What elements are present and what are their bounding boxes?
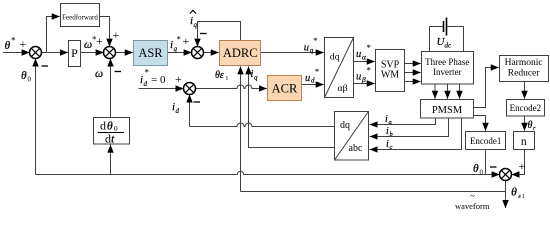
svg-text:+: +: [183, 34, 190, 48]
svg-text:0: 0: [480, 169, 484, 177]
svg-text:d: d: [176, 107, 180, 115]
svg-text:Inverter: Inverter: [433, 67, 461, 77]
svg-text:*: *: [367, 43, 372, 53]
svg-text:dc: dc: [445, 42, 453, 50]
svg-text:0: 0: [28, 76, 32, 84]
svg-text:*: *: [315, 67, 320, 77]
svg-text:dt: dt: [105, 132, 115, 146]
svg-text:θ: θ: [5, 40, 11, 52]
svg-text:+: +: [519, 159, 526, 173]
svg-text:+: +: [20, 37, 27, 51]
svg-text:θ: θ: [528, 120, 533, 131]
svg-text:PMSM: PMSM: [432, 105, 463, 116]
svg-text:+: +: [96, 34, 103, 48]
svg-text:n: n: [521, 136, 527, 148]
svg-text:*: *: [145, 68, 150, 78]
svg-text:θ: θ: [511, 185, 517, 199]
svg-text:Feedforward: Feedforward: [62, 14, 98, 22]
svg-text:P: P: [71, 46, 78, 60]
svg-text:q: q: [194, 21, 198, 29]
svg-text:*: *: [11, 36, 16, 46]
svg-text:a: a: [389, 119, 392, 126]
svg-text:ω: ω: [95, 68, 103, 80]
svg-text:Harmonic: Harmonic: [505, 58, 543, 68]
svg-text:waveform: waveform: [455, 201, 490, 211]
svg-text:d: d: [311, 77, 315, 85]
svg-text:c: c: [390, 144, 393, 151]
svg-text:ADRC: ADRC: [223, 46, 258, 60]
svg-text:θ: θ: [21, 70, 27, 82]
svg-text:Encode1: Encode1: [470, 136, 502, 146]
svg-text:Reducer: Reducer: [508, 69, 540, 79]
svg-text:θ: θ: [473, 163, 479, 175]
svg-text:+: +: [175, 72, 182, 86]
svg-text:*: *: [367, 66, 372, 76]
svg-text:~: ~: [470, 191, 475, 201]
svg-text:ASR: ASR: [138, 46, 163, 60]
svg-text:Encode2: Encode2: [510, 103, 542, 113]
svg-text:*: *: [92, 35, 97, 45]
svg-text:u: u: [356, 72, 361, 83]
svg-text:u: u: [305, 73, 310, 84]
svg-text:+: +: [113, 28, 120, 42]
svg-text:Three Phase: Three Phase: [425, 57, 469, 67]
svg-text:ACR: ACR: [272, 82, 298, 96]
svg-text:u: u: [356, 49, 361, 60]
svg-text:u: u: [304, 43, 309, 54]
svg-text:αβ: αβ: [338, 83, 348, 94]
svg-text:= 0: = 0: [151, 74, 166, 86]
svg-text:dq: dq: [330, 52, 340, 63]
svg-text:*: *: [177, 35, 182, 45]
svg-text:dq: dq: [340, 120, 350, 131]
svg-text:q: q: [254, 74, 258, 82]
svg-text:*: *: [313, 36, 318, 46]
svg-text:WM: WM: [381, 70, 399, 81]
svg-text:ω: ω: [84, 39, 92, 51]
svg-text:1: 1: [225, 75, 228, 82]
svg-text:1: 1: [522, 193, 525, 200]
svg-text:q: q: [310, 47, 314, 55]
svg-text:θε: θε: [215, 70, 224, 81]
svg-text:q: q: [174, 45, 178, 53]
svg-text:β: β: [361, 75, 366, 84]
svg-text:d: d: [144, 80, 148, 88]
svg-text:abc: abc: [349, 143, 363, 154]
